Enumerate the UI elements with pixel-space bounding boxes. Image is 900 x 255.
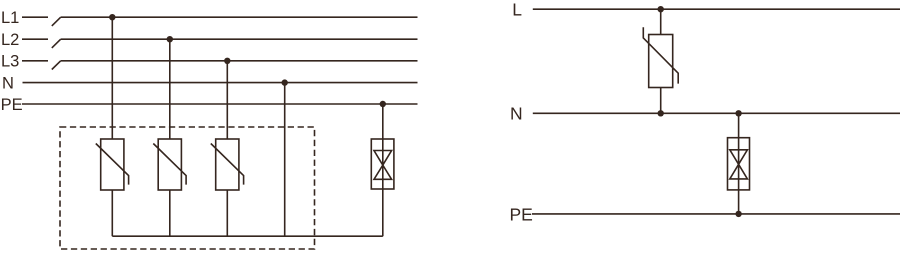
node N label (right): [510, 104, 523, 124]
wire PE line (left): [22, 103, 418, 105]
svg-text:L3: L3: [1, 53, 19, 71]
wire RV2 bottom to bus: [169, 190, 171, 236]
svg-text:L2: L2: [1, 31, 19, 49]
junction varistor bottom on N: [658, 110, 664, 116]
junction on N (left): [282, 79, 288, 85]
junction GDT top on N: [735, 110, 741, 116]
node PE label (left): [1, 96, 23, 114]
junction on L3: [224, 58, 230, 64]
switch on L3: [52, 61, 61, 70]
node L1 label: [1, 9, 19, 27]
wire L3 tap down: [226, 61, 228, 139]
gas discharge tube F2: [728, 138, 750, 190]
wire L2 line: [61, 38, 418, 40]
junction GDT bottom on PE: [735, 211, 741, 217]
svg-text:N: N: [2, 75, 14, 93]
node L2 label: [1, 31, 19, 49]
node N label (left): [2, 75, 14, 93]
wire varistor to N: [660, 88, 662, 114]
junction varistor top on L: [658, 6, 664, 12]
wire RV3 bottom to bus: [226, 190, 228, 236]
switch on L1: [52, 17, 61, 26]
varistor RV3: [211, 139, 244, 190]
varistor RV1: [96, 139, 129, 190]
junction on L2: [167, 36, 173, 42]
wire common bus: [112, 235, 383, 237]
svg-text:PE: PE: [510, 204, 533, 224]
switch on L2: [52, 39, 61, 48]
svg-text:L1: L1: [1, 9, 19, 27]
wire L3 lead: [22, 60, 48, 62]
node L3 label: [1, 53, 19, 71]
wire PE line (right): [532, 213, 900, 215]
node PE label (right): [510, 204, 533, 224]
wire L line (right): [533, 8, 900, 10]
svg-text:L: L: [512, 0, 522, 20]
node L label (right): [512, 0, 522, 20]
gas discharge tube F1: [371, 139, 394, 189]
wire N to PE through GDT: [738, 113, 740, 214]
wire N line (left): [23, 82, 418, 84]
wire N tap down to bus: [284, 83, 286, 237]
wire L to varistor: [660, 9, 662, 34]
wire RV1 bottom to bus: [111, 190, 113, 236]
dashed enclosure box: [60, 127, 315, 249]
wire PE tap down through GDT: [382, 104, 384, 236]
wire L3 line: [61, 60, 418, 62]
wire L1 tap down: [111, 17, 113, 139]
varistor RV4: [643, 27, 678, 87]
wire L2 lead: [22, 38, 48, 40]
svg-text:PE: PE: [1, 96, 23, 114]
wire L1 lead: [22, 16, 48, 18]
wire L2 tap down: [169, 39, 171, 139]
varistor RV2: [153, 139, 186, 190]
svg-text:N: N: [510, 104, 523, 124]
wire L1 line: [61, 16, 418, 18]
junction on L1: [109, 14, 115, 20]
wire N line (right): [533, 112, 900, 114]
junction on PE (left): [380, 101, 386, 107]
